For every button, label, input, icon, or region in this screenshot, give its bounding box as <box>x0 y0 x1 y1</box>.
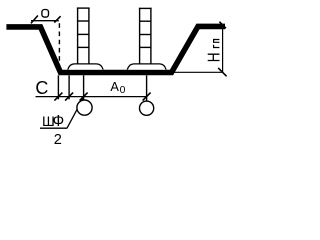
tick top of Ht <box>219 22 226 29</box>
tick at left pier axis <box>80 93 88 101</box>
extension line base edge <box>68 75 70 99</box>
left pier base <box>68 64 103 70</box>
right pier column <box>139 8 152 64</box>
label Ht letter t (rotated draughting m-style, drawn as path) <box>214 40 220 48</box>
dimension o line <box>31 20 59 22</box>
tick bottom of Ht <box>218 68 226 76</box>
svg-text:0: 0 <box>120 85 126 96</box>
tick at toe <box>54 93 62 101</box>
svg-text:2: 2 <box>54 132 62 148</box>
extension line toe <box>57 75 59 99</box>
tick right of o <box>54 16 60 22</box>
extension line left pier axis <box>83 75 85 100</box>
extension line right pier axis <box>146 75 148 101</box>
label o (squarish draughting O drawn as rounded rect) <box>42 10 49 18</box>
Ht bottom extension line <box>173 71 224 73</box>
tick at right pier axis <box>143 93 151 101</box>
tick left of o <box>31 16 38 24</box>
right pier base <box>127 64 166 70</box>
right pipe circle <box>140 101 154 115</box>
fraction bar <box>40 127 67 129</box>
bottom dimension line <box>36 96 148 98</box>
label Ht letter H (rotated, drawn as path) <box>208 54 220 60</box>
svg-text:A: A <box>110 79 119 94</box>
svg-text:Ф: Ф <box>53 113 65 130</box>
tick at base edge <box>65 93 73 101</box>
ground profile thick line <box>6 26 225 72</box>
Ht vertical dimension line <box>222 25 224 73</box>
leader line SHF/2 <box>67 97 84 128</box>
left pipe circle <box>77 100 92 115</box>
dashed slope toe line <box>58 23 60 67</box>
left pier column <box>77 8 90 64</box>
svg-text:C: C <box>35 78 48 98</box>
